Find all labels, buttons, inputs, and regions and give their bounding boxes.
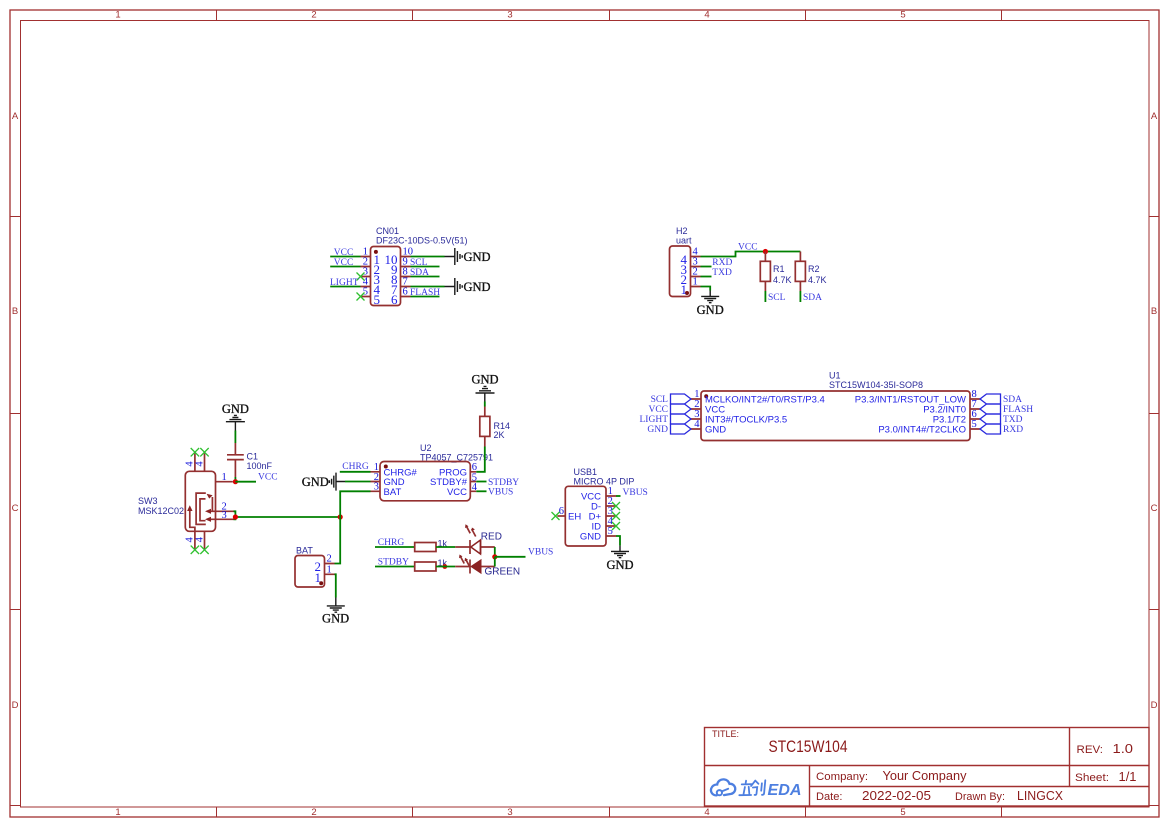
logo text 立创EDA [739, 780, 765, 795]
ground symbol at CN01 pin 7 [445, 278, 491, 295]
wire H2 pin 4 to VCC rail [701, 252, 801, 257]
svg-text:VBUS: VBUS [528, 548, 553, 558]
svg-text:1: 1 [115, 807, 120, 818]
svg-text:C1: C1 [247, 452, 259, 462]
wire C1 to VCC junction [234, 477, 236, 482]
wire USB1 pin 1 VBUS [616, 495, 621, 497]
connector H2 body [670, 246, 691, 297]
no-connect X USB1 pin 3 [612, 512, 620, 520]
wire BAT pin 1 to GND [335, 574, 336, 597]
svg-text:1: 1 [315, 570, 322, 585]
svg-text:B: B [12, 306, 18, 317]
H2 inside pin names [681, 252, 688, 297]
U2 pin-1 anchor dot [384, 465, 388, 469]
BAT outside pin numbers [327, 554, 332, 576]
svg-text:2: 2 [311, 10, 316, 21]
SW3 top pin stubs [195, 453, 205, 471]
SW3 pin 3 stub [211, 518, 234, 520]
svg-text:Company:: Company: [816, 771, 868, 783]
title block lines [704, 727, 1149, 806]
wire CN01 pin 9 SCL [411, 266, 440, 268]
BAT pin stubs [325, 564, 335, 575]
svg-text:SCL: SCL [410, 258, 428, 268]
wire USB1 pin 5 to GND [616, 536, 620, 546]
U1 left pin numbers [694, 389, 700, 430]
svg-text:VCC: VCC [334, 258, 354, 268]
net port flag SDA at U1 pin 8 [980, 394, 1001, 404]
LED RED [455, 524, 495, 554]
no-connect X CN01 pin 3 [357, 273, 365, 281]
U1 left pin names [705, 395, 825, 436]
net port flag VCC at U1 pin 2 [671, 404, 692, 414]
junction C1 / SW3 pin 1 / VCC [233, 479, 238, 484]
svg-text:GND: GND [606, 558, 633, 572]
wire CN01 pin 7 to GND [411, 286, 445, 288]
svg-text:GND: GND [697, 303, 724, 317]
no-connect X USB1 pin 2 [612, 502, 620, 510]
svg-text:U1: U1 [829, 371, 841, 381]
svg-text:RXD: RXD [712, 258, 732, 268]
wire U2 pin 5 STDBY [476, 481, 486, 483]
connector USB1 designator [574, 467, 635, 487]
svg-text:U2: U2 [420, 443, 432, 453]
svg-text:GND: GND [464, 280, 491, 294]
wire CHRG to U2 pin 1 [340, 471, 371, 473]
svg-text:BAT: BAT [384, 487, 402, 498]
svg-text:4: 4 [704, 807, 709, 818]
BAT inside pin names [315, 559, 322, 585]
svg-text:R2: R2 [808, 264, 820, 274]
svg-text:RED: RED [481, 532, 502, 543]
svg-text:MSK12C02: MSK12C02 [138, 506, 184, 516]
svg-text:2K: 2K [494, 430, 505, 440]
ground symbol at CN01 pin 10 [445, 248, 491, 265]
svg-text:VCC: VCC [334, 248, 354, 258]
svg-text:100nF: 100nF [247, 461, 273, 471]
junction BAT net [338, 514, 343, 519]
U1 left pin stubs 1-4 [691, 399, 701, 429]
svg-text:5: 5 [972, 419, 977, 430]
svg-text:GND: GND [647, 425, 668, 435]
svg-text:VCC: VCC [738, 242, 758, 252]
resistor R1 [760, 252, 770, 292]
wire GREEN LED to VBUS junction [494, 557, 496, 567]
H2 pin stubs 4-1 [691, 257, 701, 287]
svg-text:GREEN: GREEN [485, 567, 521, 578]
wire junction up to U2 BAT pin [340, 491, 370, 517]
SW3 pin 1 stub [216, 481, 233, 483]
CN01 inside pin names right column [385, 252, 399, 307]
IC U2 designator [420, 443, 493, 463]
R-green anchor dot [442, 564, 447, 569]
connector USB1 body [565, 486, 606, 546]
ground symbol at BAT pin 1 [322, 598, 349, 626]
no-connect X CN01 pin 5 [357, 293, 365, 301]
svg-text:SCL: SCL [768, 293, 786, 303]
switch SW3 body [185, 471, 215, 531]
svg-text:EH: EH [568, 511, 581, 522]
svg-text:6: 6 [472, 462, 477, 473]
svg-text:R1: R1 [773, 264, 785, 274]
battery connector BAT body [295, 556, 325, 588]
svg-text:CHRG: CHRG [342, 462, 369, 472]
svg-text:GND: GND [464, 250, 491, 264]
svg-text:1: 1 [115, 10, 120, 21]
frame row letters left [12, 111, 19, 711]
wire VCC to CN01 pin 2 [330, 266, 360, 268]
connector CN01 designator [376, 226, 468, 246]
ground symbol at U2 pin 2 [302, 473, 345, 491]
wire junction down to BAT pin 2 [335, 517, 341, 564]
svg-text:D: D [1151, 700, 1158, 711]
CN01 outside pin numbers right [403, 247, 414, 298]
USB1 pin numbers [608, 486, 614, 537]
svg-text:VCC: VCC [447, 487, 467, 498]
wire H2 pin 3 RXD [701, 266, 712, 268]
wire R2 to SDA [799, 291, 801, 302]
svg-text:1: 1 [222, 472, 227, 483]
ground symbol at USB1 pin 5 [606, 546, 633, 572]
svg-text:EDA: EDA [768, 782, 802, 799]
wire VCC to CN01 pin 1 [330, 256, 360, 258]
svg-text:4: 4 [694, 419, 700, 430]
CN01 outside pin numbers left [363, 247, 369, 298]
svg-text:Date:: Date: [816, 791, 843, 803]
resistor R14 [480, 407, 490, 447]
svg-text:LIGHT: LIGHT [640, 415, 669, 425]
svg-text:A: A [12, 111, 19, 122]
frame row letters right [1151, 111, 1158, 711]
svg-text:4: 4 [704, 10, 709, 21]
svg-text:1: 1 [681, 282, 688, 297]
svg-text:1: 1 [693, 277, 698, 288]
frame column numbers bottom [115, 807, 905, 818]
U1 right pin names [855, 395, 966, 436]
svg-text:STC15W104-35I-SOP8: STC15W104-35I-SOP8 [829, 380, 923, 390]
svg-text:1: 1 [327, 564, 332, 575]
svg-text:VCC: VCC [258, 472, 278, 482]
svg-text:GND: GND [222, 402, 249, 416]
SW3 bottom pin stubs [195, 531, 205, 549]
svg-text:2: 2 [311, 807, 316, 818]
wire junction to VCC label [235, 481, 256, 483]
USB1 right pin stubs 1-5 [606, 496, 616, 536]
SW3 bottom pin numbers (rotated) [185, 536, 206, 542]
svg-text:BAT: BAT [296, 546, 313, 556]
svg-text:6: 6 [559, 506, 564, 517]
switch SW3 designator [138, 496, 184, 516]
wire R1 to SCL [764, 291, 766, 302]
svg-text:SW3: SW3 [138, 496, 158, 506]
CN01 right pin stubs 10-6 [401, 257, 411, 297]
connector CN01 body [371, 247, 401, 306]
logo cloud icon [711, 779, 735, 795]
U2 right pin names [430, 467, 468, 498]
wire U2 pin 6 to R14 [476, 447, 485, 472]
svg-text:5: 5 [900, 10, 905, 21]
net port flag GND at U1 pin 4 [671, 424, 692, 434]
U2 right pin numbers [472, 462, 478, 493]
U1 right pin stubs 8-5 [970, 399, 980, 429]
U2 left pin numbers [374, 462, 379, 493]
svg-text:4: 4 [194, 536, 205, 542]
svg-text:A: A [1151, 111, 1158, 122]
USB1 pin 6 stub [557, 515, 565, 517]
svg-text:GND: GND [471, 372, 498, 386]
svg-text:2022-02-05: 2022-02-05 [862, 789, 931, 803]
LED GREEN [455, 555, 495, 574]
SW3 top pin numbers (rotated) [185, 461, 206, 467]
H2 pin-1 anchor dot [685, 291, 689, 295]
wire H2 pin 1 to GND [701, 287, 711, 291]
svg-text:SDA: SDA [1003, 395, 1022, 405]
svg-text:TITLE:: TITLE: [712, 729, 739, 739]
svg-text:USB1: USB1 [574, 467, 598, 477]
capacitor C1 [227, 443, 244, 477]
svg-text:FLASH: FLASH [410, 288, 440, 298]
svg-text:LIGHT: LIGHT [330, 278, 359, 288]
svg-text:5: 5 [374, 292, 381, 307]
junction VCC rail / R1 [763, 249, 768, 254]
svg-text:1.0: 1.0 [1113, 742, 1134, 756]
svg-text:GND: GND [322, 612, 349, 626]
svg-text:uart: uart [676, 236, 692, 246]
CN01 inside pin names left column [374, 252, 381, 307]
svg-text:VCC: VCC [648, 405, 668, 415]
net port flag TXD at U1 pin 6 [980, 414, 1001, 424]
wire resistor to GREEN LED [436, 566, 455, 568]
svg-text:VBUS: VBUS [488, 488, 513, 498]
svg-text:TXD: TXD [712, 268, 732, 278]
connector H2 designator [676, 226, 692, 246]
svg-text:VBUS: VBUS [623, 488, 648, 498]
svg-text:4.7K: 4.7K [808, 275, 827, 285]
svg-text:P3.0/INT4#/T2CLKO: P3.0/INT4#/T2CLKO [878, 425, 966, 436]
net port flag RXD at U1 pin 5 [980, 424, 1001, 434]
H2 outside pin numbers [693, 247, 699, 288]
IC U1 body [701, 391, 970, 441]
U2 left pin stubs 1-3 [371, 472, 381, 492]
U1 right pin numbers [972, 389, 977, 430]
svg-text:C: C [1151, 503, 1158, 514]
resistor R2 [795, 252, 805, 292]
ground symbol above C1 [222, 402, 249, 431]
svg-text:D: D [12, 700, 19, 711]
wire RED LED to VBUS junction [494, 547, 496, 557]
svg-text:5: 5 [608, 526, 613, 537]
svg-text:Sheet:: Sheet: [1075, 772, 1109, 784]
wire CN01 pin 10 to GND [411, 256, 445, 258]
wire STDBY to resistor [375, 566, 415, 568]
U2 right pin stubs 6-4 [470, 472, 476, 492]
svg-text:H2: H2 [676, 226, 688, 236]
svg-text:MICRO 4P DIP: MICRO 4P DIP [574, 477, 635, 487]
svg-text:REV:: REV: [1077, 744, 1104, 756]
SW3 internal switch glyph [187, 493, 213, 531]
wire resistor to RED LED [436, 546, 455, 548]
U1 pin-1 anchor dot [704, 394, 708, 398]
IC U1 designator [829, 371, 923, 391]
svg-text:6: 6 [403, 287, 408, 298]
SW3 pin 2 stub [211, 510, 234, 512]
BAT pin-1 anchor dot [319, 581, 323, 585]
svg-text:STC15W104: STC15W104 [769, 738, 848, 756]
svg-text:5: 5 [900, 807, 905, 818]
svg-text:LINGCX: LINGCX [1017, 789, 1064, 803]
wire LIGHT to CN01 pin 4 [330, 286, 360, 288]
svg-text:2: 2 [327, 554, 332, 565]
svg-text:5: 5 [363, 287, 368, 298]
svg-text:1/1: 1/1 [1119, 770, 1137, 784]
junction SW3 pins 2-3 [233, 514, 238, 519]
U2 left pin names [384, 467, 418, 498]
wire junction to VBUS label [495, 556, 526, 558]
svg-text:C: C [12, 503, 19, 514]
svg-text:GND: GND [580, 531, 601, 542]
svg-text:DF23C-10DS-0.5V(51): DF23C-10DS-0.5V(51) [376, 236, 468, 246]
svg-text:6: 6 [391, 292, 398, 307]
svg-text:SDA: SDA [410, 268, 429, 278]
wire CHRG to resistor [375, 546, 415, 548]
svg-text:GND: GND [302, 475, 329, 489]
svg-text:GND: GND [705, 425, 726, 436]
svg-text:B: B [1151, 306, 1157, 317]
wire CN01 pin 8 SDA [411, 276, 440, 278]
svg-text:Drawn By:: Drawn By: [955, 791, 1005, 803]
wire R14 to GND [484, 402, 486, 407]
junction LED VBUS [492, 554, 497, 559]
ground symbol above R14 [471, 372, 498, 401]
net port flag LIGHT at U1 pin 3 [671, 414, 692, 424]
svg-text:Your Company: Your Company [883, 769, 968, 783]
wire GND to C1 [234, 431, 236, 444]
ground symbol at H2 pin 1 [697, 291, 724, 318]
svg-text:CN01: CN01 [376, 226, 399, 236]
svg-text:3: 3 [507, 807, 512, 818]
svg-text:RXD: RXD [1003, 425, 1023, 435]
svg-text:3: 3 [374, 482, 379, 493]
no-connect X USB1 pin 6 [552, 512, 560, 520]
USB1 inside pin names [580, 491, 602, 542]
svg-text:4.7K: 4.7K [773, 275, 792, 285]
frame column numbers top [115, 10, 905, 21]
wire U2 pin 2 GND [345, 481, 371, 483]
svg-text:SDA: SDA [803, 293, 822, 303]
svg-text:4: 4 [194, 461, 205, 467]
svg-text:TXD: TXD [1003, 415, 1023, 425]
SW3 bottom no-connect X marks [191, 546, 209, 554]
svg-text:3: 3 [222, 510, 227, 521]
svg-text:STDBY: STDBY [488, 478, 519, 488]
CN01 left pin stubs 1-5 [361, 257, 371, 297]
wire CN01 pin 6 FLASH [411, 296, 440, 298]
no-connect X USB1 pin 4 [612, 522, 620, 530]
net port flag FLASH at U1 pin 7 [980, 404, 1001, 414]
wire H2 pin 2 TXD [701, 276, 712, 278]
wire SW3 pins 2/3 tie [234, 511, 341, 519]
svg-text:3: 3 [507, 10, 512, 21]
SW3 top no-connect X marks [191, 448, 209, 456]
resistor R-red 1k [415, 543, 436, 552]
svg-text:SCL: SCL [651, 395, 669, 405]
IC U2 body [380, 462, 470, 501]
CN01 pin-1 anchor dot [374, 250, 378, 254]
svg-text:FLASH: FLASH [1003, 405, 1033, 415]
wire U2 pin 4 VBUS [476, 490, 486, 492]
resistor R-green 1k [415, 562, 436, 571]
net port flag SCL at U1 pin 1 [671, 394, 692, 404]
